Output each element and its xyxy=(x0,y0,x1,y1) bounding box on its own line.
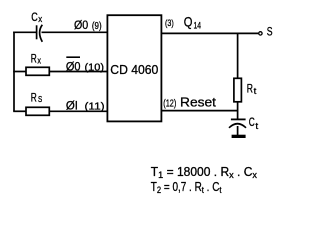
svg-text:C: C xyxy=(31,12,38,24)
svg-text:S: S xyxy=(267,27,273,39)
svg-text:CD 4060: CD 4060 xyxy=(110,62,158,77)
svg-text:Reset: Reset xyxy=(180,95,216,110)
svg-text:ØI: ØI xyxy=(66,101,78,113)
svg-text:t: t xyxy=(254,86,257,97)
svg-text:C: C xyxy=(249,117,255,129)
svg-text:(12): (12) xyxy=(163,99,176,110)
svg-text:x: x xyxy=(38,14,42,25)
svg-text:R: R xyxy=(31,93,37,105)
svg-text:T2 = 0,7 . Rt . Ct: T2 = 0,7 . Rt . Ct xyxy=(151,180,222,196)
svg-text:(10): (10) xyxy=(85,63,105,74)
svg-text:(11): (11) xyxy=(85,102,105,113)
svg-text:14: 14 xyxy=(194,21,202,31)
svg-text:R: R xyxy=(31,53,37,65)
svg-text:Q: Q xyxy=(184,15,193,30)
svg-text:Ø0: Ø0 xyxy=(74,20,88,32)
svg-text:t: t xyxy=(255,121,258,132)
svg-text:x: x xyxy=(37,56,41,67)
svg-text:Ø0: Ø0 xyxy=(66,62,81,74)
svg-text:R: R xyxy=(247,84,253,96)
svg-text:T1 = 18000 . Rx . Cx: T1 = 18000 . Rx . Cx xyxy=(151,165,257,181)
svg-text:(9): (9) xyxy=(92,21,102,32)
svg-text:S: S xyxy=(38,95,42,104)
svg-text:(3): (3) xyxy=(165,18,174,29)
